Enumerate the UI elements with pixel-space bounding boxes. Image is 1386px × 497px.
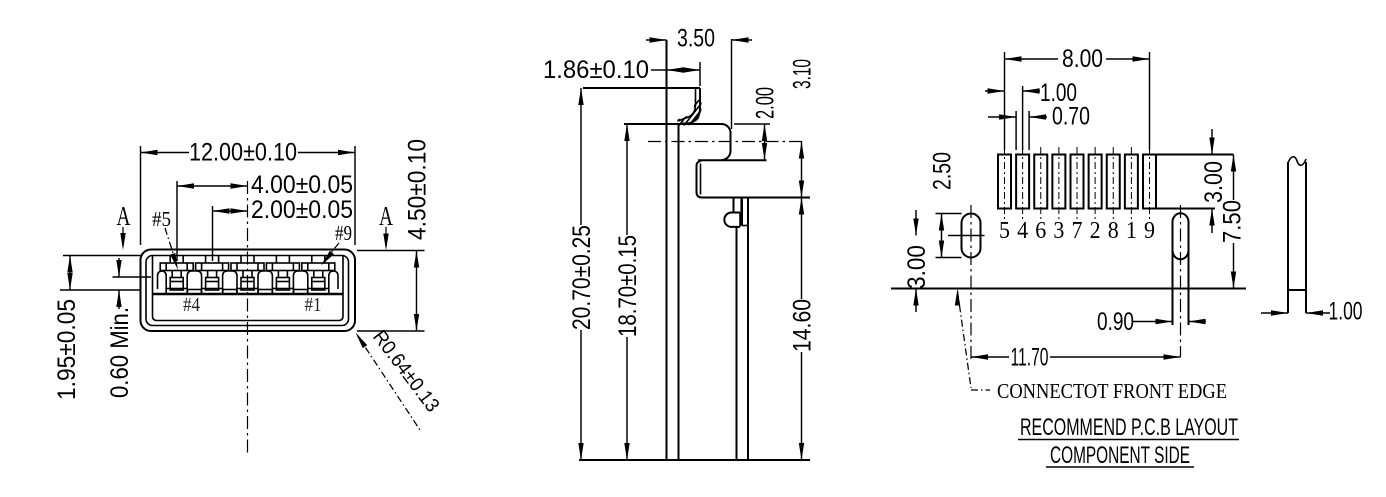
svg-text:6: 6 <box>1035 218 1046 244</box>
svg-text:4.00±0.05: 4.00±0.05 <box>251 171 353 199</box>
svg-text:20.70±0.25: 20.70±0.25 <box>568 225 596 330</box>
svg-text:2.00: 2.00 <box>752 87 780 119</box>
svg-text:A: A <box>379 201 393 231</box>
svg-text:8: 8 <box>1108 218 1119 244</box>
svg-text:#4: #4 <box>183 294 200 316</box>
svg-text:0.70: 0.70 <box>1052 103 1090 131</box>
svg-text:7.50: 7.50 <box>1219 200 1247 243</box>
svg-text:0.60 Min.: 0.60 Min. <box>106 307 134 398</box>
svg-text:A: A <box>117 201 131 231</box>
svg-text:4: 4 <box>1017 218 1028 244</box>
svg-text:11.70: 11.70 <box>1011 344 1049 372</box>
svg-text:7: 7 <box>1072 218 1083 244</box>
svg-text:#9: #9 <box>335 221 352 245</box>
svg-text:3.00: 3.00 <box>903 245 931 289</box>
svg-text:#5: #5 <box>152 207 171 231</box>
svg-text:18.70±0.15: 18.70±0.15 <box>614 235 642 337</box>
svg-text:9: 9 <box>1144 218 1155 244</box>
svg-text:4.50±0.10: 4.50±0.10 <box>404 139 432 240</box>
svg-text:2.00±0.05: 2.00±0.05 <box>251 196 353 224</box>
svg-text:1.00: 1.00 <box>1329 298 1363 326</box>
svg-text:8.00: 8.00 <box>1062 45 1103 73</box>
svg-text:COMPONENT SIDE: COMPONENT SIDE <box>1050 442 1190 469</box>
svg-text:RECOMMEND P.C.B LAYOUT: RECOMMEND P.C.B LAYOUT <box>1020 414 1238 441</box>
svg-text:3: 3 <box>1053 218 1064 244</box>
svg-text:#1: #1 <box>305 294 322 316</box>
svg-text:12.00±0.10: 12.00±0.10 <box>189 139 297 167</box>
svg-text:3.10: 3.10 <box>789 59 817 89</box>
svg-text:2.50: 2.50 <box>929 152 957 190</box>
svg-text:3.50: 3.50 <box>677 25 715 53</box>
svg-text:1.86±0.10: 1.86±0.10 <box>543 56 649 84</box>
svg-text:CONNECTOT FRONT EDGE: CONNECTOT FRONT EDGE <box>997 379 1227 403</box>
svg-text:1.95±0.05: 1.95±0.05 <box>53 299 81 400</box>
svg-text:3.00: 3.00 <box>1200 161 1228 203</box>
svg-text:1: 1 <box>1126 218 1137 244</box>
svg-text:5: 5 <box>999 218 1010 244</box>
svg-text:2: 2 <box>1090 218 1101 244</box>
svg-text:0.90: 0.90 <box>1097 308 1134 336</box>
svg-text:14.60: 14.60 <box>789 299 817 352</box>
